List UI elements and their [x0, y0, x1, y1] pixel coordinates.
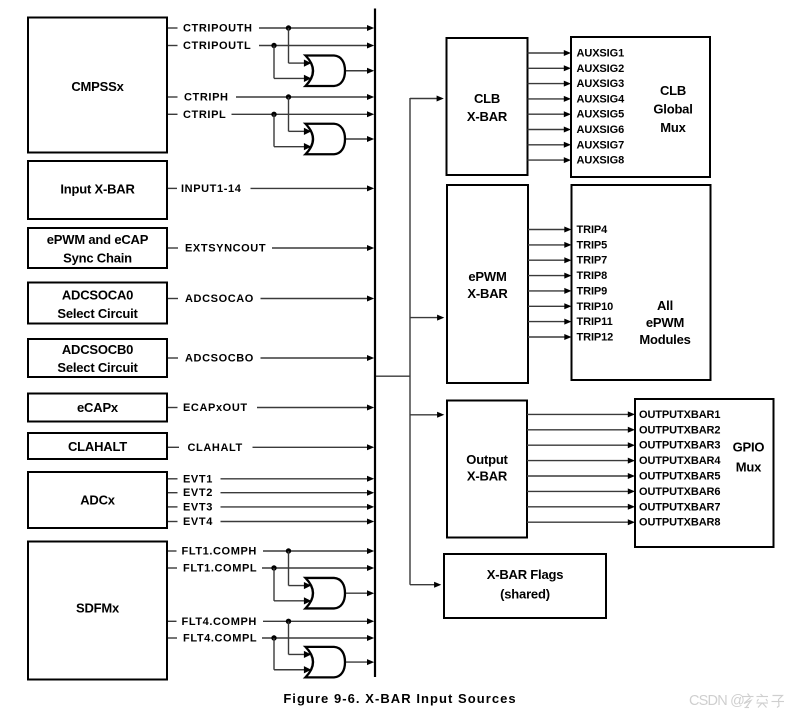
svg-text:Input X-BAR: Input X-BAR	[60, 182, 135, 197]
svg-text:CLB: CLB	[660, 83, 686, 98]
svg-text:ADCSOCAO: ADCSOCAO	[185, 293, 254, 305]
svg-text:Figure 9-6. X-BAR Input Source: Figure 9-6. X-BAR Input Sources	[283, 691, 516, 706]
svg-text:CLAHALT: CLAHALT	[188, 442, 243, 454]
svg-text:GPIO: GPIO	[733, 440, 765, 455]
svg-text:AUXSIG2: AUXSIG2	[577, 63, 625, 75]
svg-text:TRIP5: TRIP5	[577, 239, 608, 251]
svg-text:EVT4: EVT4	[183, 516, 213, 528]
svg-text:AUXSIG6: AUXSIG6	[577, 124, 625, 136]
svg-text:Sync Chain: Sync Chain	[63, 251, 132, 266]
svg-text:ePWM and eCAP: ePWM and eCAP	[47, 232, 149, 247]
svg-text:OUTPUTXBAR3: OUTPUTXBAR3	[639, 440, 720, 452]
svg-text:CTRIPOUTL: CTRIPOUTL	[183, 40, 251, 52]
svg-text:(shared): (shared)	[500, 587, 550, 602]
svg-text:OUTPUTXBAR1: OUTPUTXBAR1	[639, 409, 720, 421]
svg-text:All: All	[657, 298, 673, 313]
svg-text:EVT3: EVT3	[183, 501, 213, 513]
svg-text:AUXSIG3: AUXSIG3	[577, 78, 625, 90]
svg-text:Global: Global	[653, 102, 692, 117]
svg-text:FLT1.COMPH: FLT1.COMPH	[182, 546, 257, 558]
svg-text:FLT4.COMPL: FLT4.COMPL	[183, 633, 257, 645]
svg-text:ADCx: ADCx	[80, 493, 116, 508]
svg-text:Select Circuit: Select Circuit	[57, 306, 138, 321]
svg-text:X-BAR: X-BAR	[467, 469, 508, 484]
svg-text:OUTPUTXBAR7: OUTPUTXBAR7	[639, 501, 720, 513]
svg-text:EXTSYNCOUT: EXTSYNCOUT	[185, 243, 266, 255]
svg-text:TRIP12: TRIP12	[577, 332, 614, 344]
svg-text:CLAHALT: CLAHALT	[68, 439, 127, 454]
svg-text:ADCSOCBO: ADCSOCBO	[185, 353, 254, 365]
svg-text:Mux: Mux	[736, 460, 762, 475]
svg-text:TRIP8: TRIP8	[577, 270, 608, 282]
svg-text:AUXSIG8: AUXSIG8	[577, 155, 625, 167]
svg-text:TRIP7: TRIP7	[577, 255, 608, 267]
svg-text:CMPSSx: CMPSSx	[71, 79, 124, 94]
svg-text:CLB: CLB	[474, 91, 500, 106]
svg-text:TRIP4: TRIP4	[577, 224, 609, 236]
svg-text:ADCSOCA0: ADCSOCA0	[62, 288, 133, 303]
svg-text:Mux: Mux	[660, 120, 686, 135]
svg-text:CTRIPOUTH: CTRIPOUTH	[183, 23, 253, 35]
svg-text:Output: Output	[466, 452, 508, 467]
svg-text:ePWM: ePWM	[646, 315, 684, 330]
svg-text:CSDN @: CSDN @	[689, 693, 744, 709]
svg-text:OUTPUTXBAR6: OUTPUTXBAR6	[639, 486, 720, 498]
svg-text:ECAPxOUT: ECAPxOUT	[183, 402, 248, 414]
svg-text:FLT1.COMPL: FLT1.COMPL	[183, 563, 257, 575]
svg-text:X-BAR: X-BAR	[467, 286, 508, 301]
svg-text:TRIP10: TRIP10	[577, 301, 614, 313]
svg-text:FLT4.COMPH: FLT4.COMPH	[182, 616, 257, 628]
svg-text:OUTPUTXBAR2: OUTPUTXBAR2	[639, 424, 720, 436]
svg-text:AUXSIG4: AUXSIG4	[577, 93, 626, 105]
svg-text:ePWM: ePWM	[468, 269, 506, 284]
svg-text:CTRIPH: CTRIPH	[184, 92, 229, 104]
svg-text:Select Circuit: Select Circuit	[57, 360, 138, 375]
svg-text:SDFMx: SDFMx	[76, 601, 120, 616]
svg-text:ADCSOCB0: ADCSOCB0	[62, 342, 133, 357]
svg-text:OUTPUTXBAR4: OUTPUTXBAR4	[639, 455, 721, 467]
svg-text:AUXSIG7: AUXSIG7	[577, 139, 625, 151]
svg-text:CTRIPL: CTRIPL	[183, 109, 226, 121]
svg-text:eCAPx: eCAPx	[77, 400, 119, 415]
svg-text:X-BAR: X-BAR	[467, 109, 508, 124]
svg-text:OUTPUTXBAR5: OUTPUTXBAR5	[639, 471, 720, 483]
svg-text:EVT2: EVT2	[183, 487, 213, 499]
svg-text:OUTPUTXBAR8: OUTPUTXBAR8	[639, 517, 720, 529]
svg-text:AUXSIG5: AUXSIG5	[577, 109, 625, 121]
svg-text:Modules: Modules	[639, 332, 690, 347]
svg-text:AUXSIG1: AUXSIG1	[577, 48, 625, 60]
svg-text:X-BAR Flags: X-BAR Flags	[487, 567, 564, 582]
svg-text:INPUT1-14: INPUT1-14	[181, 183, 242, 195]
svg-text:EVT1: EVT1	[183, 473, 213, 485]
svg-text:TRIP11: TRIP11	[577, 316, 613, 328]
svg-text:TRIP9: TRIP9	[577, 285, 608, 297]
